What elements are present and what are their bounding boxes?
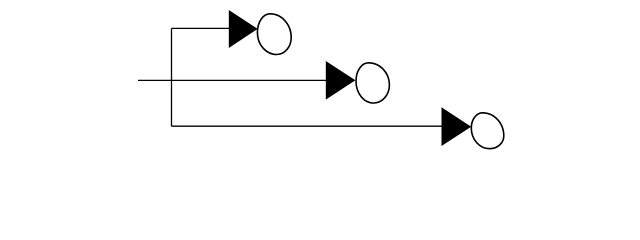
node ellipse 1 <box>257 14 291 55</box>
wire trunk vertical <box>171 28 173 126</box>
arrowhead 3 <box>442 107 472 146</box>
wire bottom branch horizontal <box>172 125 444 127</box>
arrowhead 2 <box>326 61 356 100</box>
node ellipse 3 <box>471 113 504 149</box>
node ellipse 2 <box>356 63 389 103</box>
arrowhead 1 <box>229 10 258 48</box>
wire top branch horizontal <box>172 27 232 29</box>
wire middle branch horizontal <box>138 79 328 81</box>
